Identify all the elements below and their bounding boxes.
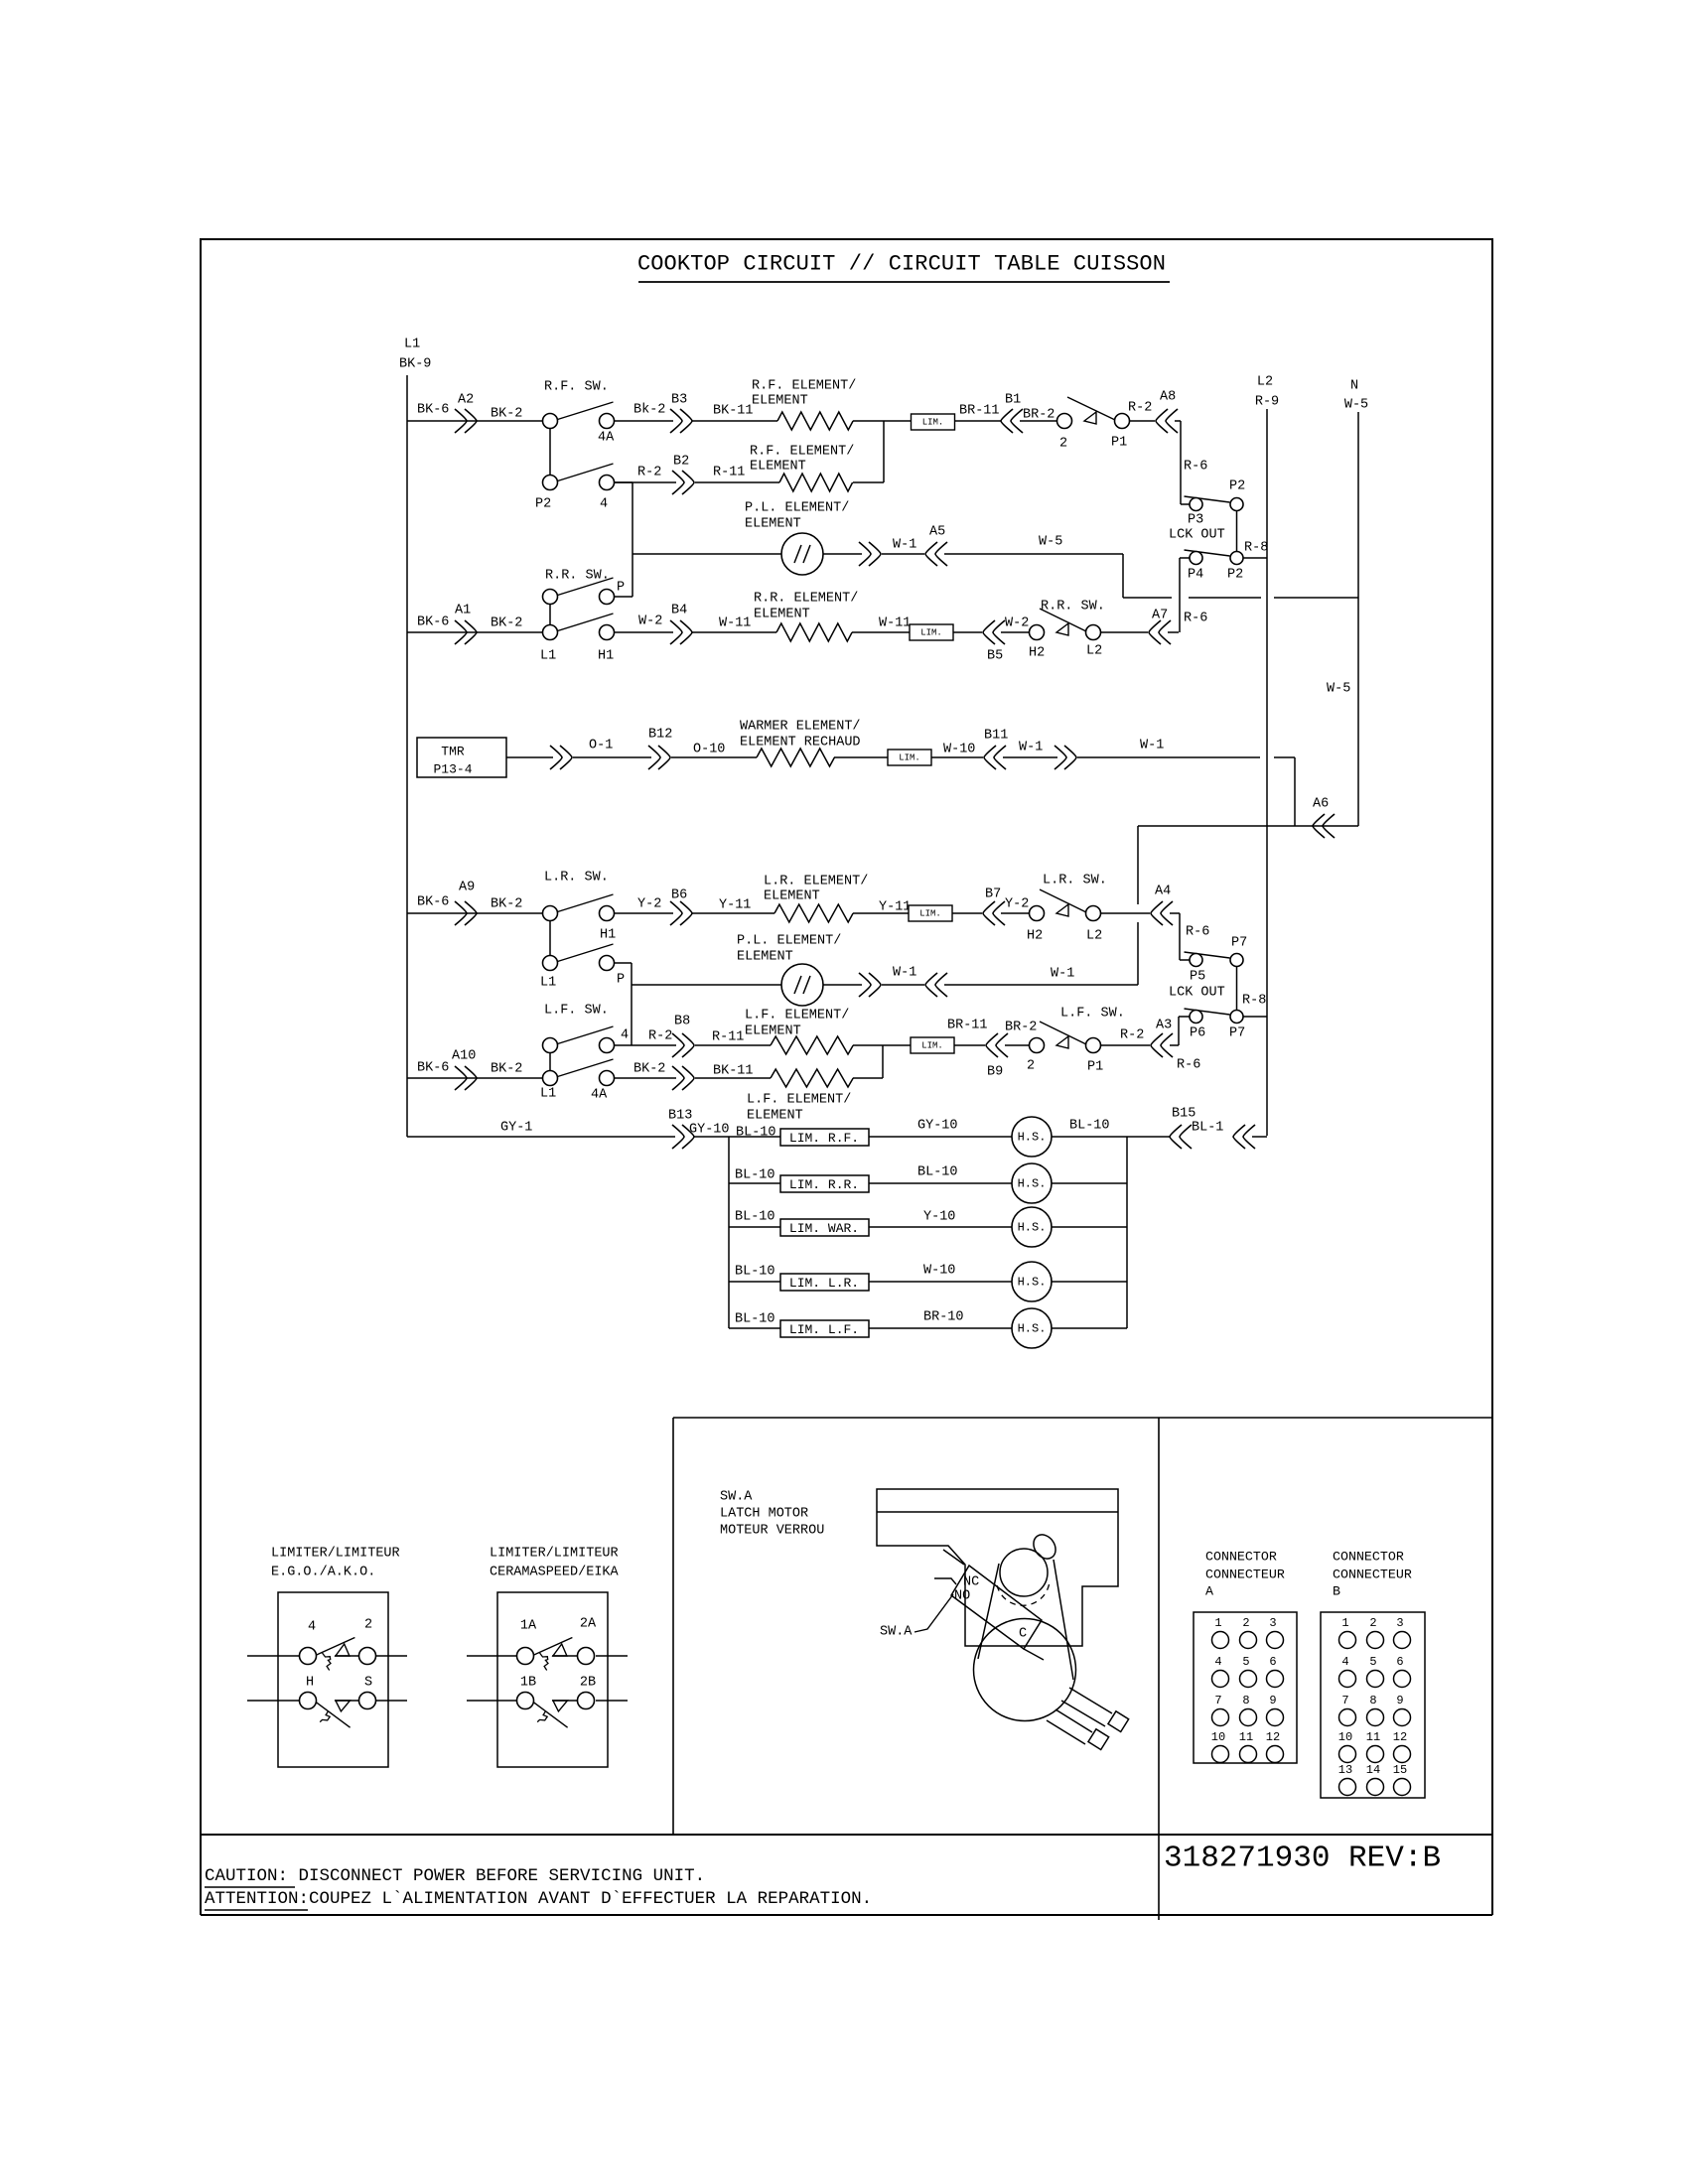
svg-text:A5: A5: [929, 525, 945, 540]
svg-text:A7: A7: [1152, 609, 1168, 623]
svg-text:CONNECTEUR: CONNECTEUR: [1333, 1568, 1412, 1582]
svg-text:W-2: W-2: [1005, 616, 1029, 631]
svg-text:2: 2: [364, 1618, 372, 1633]
svg-text:BR-10: BR-10: [923, 1310, 964, 1325]
svg-text:A10: A10: [452, 1049, 476, 1064]
limiter LIM. (L.R.): [909, 905, 952, 921]
svg-text:H: H: [306, 1676, 314, 1691]
svg-text:B: B: [1333, 1584, 1340, 1599]
wire A4 down to lockout: [1179, 913, 1181, 960]
wire N bus: [1357, 412, 1359, 826]
svg-text:R-11: R-11: [712, 1030, 744, 1045]
svg-text:11: 11: [1366, 1730, 1380, 1744]
svg-text:BR-11: BR-11: [959, 404, 1000, 419]
svg-text:H.S.: H.S.: [1018, 1177, 1047, 1191]
wire pair link L.R.: [549, 920, 551, 956]
switch CERAMASPEED 1A-2A: [534, 1638, 573, 1656]
connector B7: [983, 901, 1005, 925]
resistor R.F. element (upper): [777, 412, 853, 430]
svg-text:1B: 1B: [520, 1676, 536, 1691]
connector (TMR out): [550, 746, 572, 769]
svg-text:NO: NO: [954, 1589, 970, 1604]
resistor L.F. element (upper): [771, 1036, 853, 1054]
svg-text:B15: B15: [1172, 1107, 1196, 1122]
svg-text:L.R. SW.: L.R. SW.: [544, 871, 609, 886]
pilot lamp P.L. element (top): [781, 533, 823, 575]
switch LCK OUT P6-P7: [1185, 1009, 1230, 1015]
svg-text:R.F. ELEMENT/: R.F. ELEMENT/: [750, 445, 854, 460]
svg-text:W-1: W-1: [1019, 741, 1043, 755]
motor hidden edge dashed: [997, 1581, 1050, 1605]
svg-text:13: 13: [1338, 1763, 1352, 1777]
connector A3: [1151, 1033, 1173, 1057]
svg-text:P1: P1: [1087, 1060, 1103, 1075]
svg-text:H2: H2: [1027, 929, 1043, 944]
switch CERAMASPEED 1B-2B: [533, 1702, 568, 1727]
svg-text:CAUTION: DISCONNECT POWER BEFO: CAUTION: DISCONNECT POWER BEFORE SERVICI…: [205, 1866, 705, 1886]
connector A10: [455, 1066, 477, 1090]
wire pair link R.F.: [549, 428, 551, 476]
svg-text:BK-2: BK-2: [491, 897, 522, 912]
svg-text:ELEMENT: ELEMENT: [745, 517, 801, 532]
divider connector box: [1158, 1418, 1160, 1920]
svg-text:LIM.: LIM.: [920, 628, 942, 638]
heat switch H.S. 4: [1012, 1262, 1052, 1301]
svg-text:P3: P3: [1188, 513, 1203, 528]
connector B9: [986, 1033, 1008, 1057]
svg-text:ELEMENT: ELEMENT: [750, 460, 806, 475]
svg-text:P.L. ELEMENT/: P.L. ELEMENT/: [745, 501, 849, 516]
wire A6 column to W-1: [1137, 826, 1139, 904]
wire warmer row: [506, 756, 553, 758]
connector B15 second: [1233, 1125, 1255, 1149]
heat switch H.S. 2: [1012, 1163, 1052, 1203]
switch LCK OUT P3-P2: [1185, 496, 1230, 502]
svg-text:ATTENTION:COUPEZ L`ALIMENTATIO: ATTENTION:COUPEZ L`ALIMENTATION AVANT D`…: [205, 1889, 872, 1909]
svg-text:6: 6: [1269, 1655, 1276, 1669]
wire R-8 to L2 bus: [1243, 557, 1267, 559]
svg-text:BK-11: BK-11: [713, 404, 754, 419]
wire E.G.O. top row: [247, 1655, 299, 1657]
wire pair link R.R.: [549, 604, 551, 625]
svg-text:P7: P7: [1231, 936, 1247, 951]
svg-text:Y-11: Y-11: [879, 900, 911, 915]
svg-text:3: 3: [1396, 1616, 1403, 1630]
svg-text:A1: A1: [455, 604, 471, 618]
svg-text:ELEMENT: ELEMENT: [754, 608, 810, 622]
svg-text:LCK OUT: LCK OUT: [1169, 528, 1225, 543]
wire P4 to A7: [1180, 557, 1190, 559]
wire R.R. row: [407, 631, 543, 633]
switch L.F. SW. lower contacts L1-4A: [558, 1059, 614, 1077]
svg-text:R.F. SW.: R.F. SW.: [544, 380, 609, 395]
svg-text:W-1: W-1: [893, 966, 916, 981]
svg-text:B9: B9: [987, 1065, 1003, 1080]
svg-text:S: S: [364, 1676, 372, 1691]
limiter LIM. (L.F.): [911, 1037, 954, 1053]
wire E.G.O. bottom row: [247, 1700, 299, 1702]
switch SW.A body: [951, 1566, 1042, 1649]
svg-text:W-1: W-1: [1051, 967, 1074, 982]
wire P.L. row1 right: [823, 553, 862, 555]
divider latch box left: [672, 1418, 674, 1835]
wire P.L. row2 left: [632, 984, 781, 986]
connector B2: [672, 471, 694, 494]
wire A6 row: [1138, 825, 1358, 827]
svg-text:L2: L2: [1257, 375, 1273, 390]
limiter LIM. (warmer): [888, 750, 931, 765]
svg-text:NC: NC: [963, 1575, 979, 1590]
svg-text:H1: H1: [598, 649, 614, 664]
svg-text:BK-2: BK-2: [491, 616, 522, 631]
divider latch box top: [673, 1417, 1492, 1419]
switch R.R. limit contacts H2-L2: [1030, 625, 1045, 640]
svg-text:CONNECTOR: CONNECTOR: [1205, 1550, 1277, 1565]
wire P to column: [614, 596, 633, 598]
wire P2-P2 link: [1236, 511, 1238, 552]
wire SW.A C lead: [1024, 1649, 1044, 1660]
wire CERAMASPEED bottom row: [467, 1700, 517, 1702]
svg-text:BK-11: BK-11: [713, 1064, 754, 1079]
svg-text:P2: P2: [535, 497, 551, 512]
svg-text:4: 4: [1214, 1655, 1221, 1669]
svg-text:Bk-2: Bk-2: [633, 403, 665, 418]
svg-text:P13-4: P13-4: [433, 762, 472, 777]
svg-text:P: P: [617, 581, 625, 596]
svg-text:14: 14: [1366, 1763, 1380, 1777]
svg-text:R-2: R-2: [648, 1029, 672, 1044]
connector A8: [1156, 409, 1178, 433]
svg-text:4: 4: [600, 497, 608, 512]
motor body circle: [974, 1619, 1076, 1721]
svg-text:1A: 1A: [520, 1619, 537, 1634]
connector A9: [455, 901, 477, 925]
svg-text:LIM. L.F.: LIM. L.F.: [789, 1322, 859, 1337]
connector (L.F.2): [672, 1066, 694, 1090]
svg-text:W-2: W-2: [638, 614, 662, 629]
wire L.F. row2: [407, 1077, 542, 1079]
svg-text:10: 10: [1338, 1730, 1352, 1744]
svg-text:R-6: R-6: [1184, 460, 1207, 475]
wire P column L.R.: [615, 962, 632, 964]
svg-text:R.R. SW.: R.R. SW.: [545, 569, 610, 584]
svg-text:B5: B5: [987, 649, 1003, 664]
svg-text:BK-2: BK-2: [491, 407, 522, 422]
connector B15: [1170, 1125, 1192, 1149]
connector A6: [1313, 814, 1335, 838]
connector B3: [670, 409, 692, 433]
svg-text:B4: B4: [671, 604, 687, 618]
svg-text:4: 4: [1341, 1655, 1348, 1669]
svg-text:7: 7: [1341, 1694, 1348, 1707]
connector B13: [672, 1125, 694, 1149]
switch L.F. limit contacts 2-P1: [1030, 1038, 1045, 1053]
wire P7-P7 link: [1236, 967, 1238, 1011]
svg-text:LIM. WAR.: LIM. WAR.: [789, 1221, 859, 1236]
svg-text:R.R. ELEMENT/: R.R. ELEMENT/: [754, 592, 858, 607]
connector B12: [648, 746, 670, 769]
switch E.G.O. H-S: [316, 1702, 351, 1727]
svg-text:1: 1: [1341, 1616, 1348, 1630]
svg-text:BL-1: BL-1: [1192, 1121, 1223, 1136]
svg-text:3: 3: [1269, 1616, 1276, 1630]
svg-text:B8: B8: [674, 1015, 690, 1029]
svg-text:12: 12: [1266, 1730, 1280, 1744]
svg-text:BK-6: BK-6: [417, 895, 449, 910]
wire warmer W-1 down to A6 row: [1294, 757, 1296, 826]
svg-text:P: P: [617, 973, 625, 988]
svg-text:ELEMENT: ELEMENT: [764, 889, 820, 904]
limiter LIM. R.F. box: [780, 1129, 869, 1146]
wire P.L. row1 left: [633, 553, 781, 555]
limiter LIM. WAR. box: [780, 1219, 869, 1236]
svg-text:B12: B12: [648, 728, 672, 743]
switch R.F. SW. upper contacts: [558, 402, 614, 420]
motor terminal lug 1: [1108, 1711, 1129, 1732]
limiter LIM. L.F. box: [780, 1320, 869, 1337]
svg-text:P5: P5: [1190, 970, 1205, 985]
svg-text:WARMER ELEMENT/: WARMER ELEMENT/: [740, 720, 861, 735]
svg-text:W-10: W-10: [923, 1264, 955, 1279]
svg-text:R.F. ELEMENT/: R.F. ELEMENT/: [752, 379, 856, 394]
svg-text:L2: L2: [1086, 644, 1102, 659]
svg-text:LCK OUT: LCK OUT: [1169, 986, 1225, 1001]
svg-text:P1: P1: [1111, 436, 1127, 451]
svg-text:B11: B11: [984, 729, 1008, 744]
connector B1: [1001, 409, 1023, 433]
svg-text:LIM. L.R.: LIM. L.R.: [789, 1276, 859, 1291]
svg-text:CONNECTEUR: CONNECTEUR: [1205, 1568, 1285, 1582]
svg-text:BK-9: BK-9: [399, 357, 431, 372]
svg-text:L2: L2: [1086, 929, 1102, 944]
svg-text:P4: P4: [1188, 568, 1203, 583]
svg-text:W-1: W-1: [1140, 739, 1164, 753]
wire R-8 to L2 bus 2: [1243, 1016, 1267, 1018]
resistor R.F. element (lower): [779, 474, 853, 491]
connector B11: [984, 746, 1006, 769]
svg-text:B6: B6: [671, 888, 687, 903]
svg-text:H2: H2: [1029, 646, 1045, 661]
svg-text:P6: P6: [1190, 1026, 1205, 1041]
svg-text:L.R. ELEMENT/: L.R. ELEMENT/: [764, 875, 868, 889]
svg-text:R-6: R-6: [1184, 612, 1207, 626]
wire SW.A NO lead: [934, 1578, 956, 1584]
svg-text:H.S.: H.S.: [1018, 1221, 1047, 1235]
connector B5: [983, 620, 1005, 644]
svg-text:2: 2: [1242, 1616, 1249, 1630]
svg-text:L1: L1: [540, 976, 556, 991]
svg-text:R-2: R-2: [1120, 1028, 1144, 1043]
wire L.F. row1: [615, 1044, 676, 1046]
svg-text:BL-10: BL-10: [735, 1312, 775, 1327]
switch R.R. SW. lower contacts L1-H1: [558, 614, 614, 631]
svg-text:E.G.O./A.K.O.: E.G.O./A.K.O.: [271, 1566, 375, 1580]
wire GY-1 row: [407, 1136, 675, 1138]
svg-text:LIMITER/LIMITEUR: LIMITER/LIMITEUR: [490, 1547, 619, 1562]
svg-text:ELEMENT: ELEMENT: [737, 950, 793, 965]
svg-text:LIM. R.R.: LIM. R.R.: [789, 1177, 859, 1192]
svg-text:LIM.: LIM.: [921, 1041, 943, 1051]
wire R.F. row2: [615, 481, 676, 483]
switch LCK OUT P4-P2: [1185, 550, 1230, 556]
svg-text:ELEMENT: ELEMENT: [752, 394, 808, 409]
switch L.F. SW. upper contacts 4: [558, 1026, 614, 1044]
svg-text:P2: P2: [1229, 479, 1245, 494]
heat switch H.S. 5: [1012, 1308, 1052, 1348]
motor armature circle: [1000, 1549, 1048, 1596]
svg-text:TMR: TMR: [441, 745, 465, 759]
svg-text:ELEMENT: ELEMENT: [745, 1024, 801, 1039]
svg-text:9: 9: [1396, 1694, 1403, 1707]
connector A1: [455, 620, 477, 644]
svg-text:A: A: [1205, 1584, 1213, 1599]
latch bracket inner line: [877, 1511, 1118, 1513]
svg-text:W-1: W-1: [893, 538, 916, 553]
svg-text:4A: 4A: [591, 1088, 608, 1103]
svg-text:CERAMASPEED/EIKA: CERAMASPEED/EIKA: [490, 1566, 620, 1580]
connector B6: [670, 901, 692, 925]
svg-text:B2: B2: [673, 455, 689, 470]
svg-text:H.S.: H.S.: [1018, 1322, 1047, 1336]
svg-text:GY-1: GY-1: [500, 1121, 532, 1136]
svg-text:2: 2: [1369, 1616, 1376, 1630]
svg-text:5: 5: [1369, 1655, 1376, 1669]
svg-text:BK-2: BK-2: [633, 1062, 665, 1077]
svg-text:L1: L1: [540, 1087, 556, 1102]
switch R.F. limit contacts 2-P1: [1057, 414, 1072, 429]
limiter E.G.O. box: [278, 1592, 388, 1767]
svg-text:P7: P7: [1229, 1026, 1245, 1041]
svg-text:R-6: R-6: [1186, 925, 1209, 940]
svg-text:L1: L1: [540, 649, 556, 664]
svg-text:GY-10: GY-10: [689, 1123, 730, 1138]
svg-text:BL-10: BL-10: [735, 1210, 775, 1225]
svg-text:R.R. SW.: R.R. SW.: [1041, 600, 1105, 614]
svg-text:2A: 2A: [580, 1617, 597, 1632]
svg-text:P2: P2: [1227, 568, 1243, 583]
svg-text:7: 7: [1214, 1694, 1221, 1707]
svg-text:GY-10: GY-10: [917, 1119, 958, 1134]
svg-text:2B: 2B: [580, 1676, 596, 1691]
connector A4: [1151, 901, 1173, 925]
svg-text:4: 4: [621, 1028, 629, 1043]
svg-text:6: 6: [1396, 1655, 1403, 1669]
limiter LIM. L.R. box: [780, 1274, 869, 1291]
svg-text:W-5: W-5: [1039, 535, 1062, 550]
limiter LIM. (R.R.): [910, 624, 953, 640]
svg-text:L1: L1: [404, 338, 420, 352]
svg-text:2: 2: [1059, 437, 1067, 452]
wire R.F. row1: [407, 420, 542, 422]
wire limiter feed column: [728, 1137, 730, 1328]
connector B box: [1321, 1612, 1425, 1798]
svg-text:BK-6: BK-6: [417, 615, 449, 630]
svg-text:A9: A9: [459, 881, 475, 895]
svg-text:BR-2: BR-2: [1023, 408, 1055, 423]
wire P6 to A3: [1179, 1016, 1190, 1018]
connector A7: [1149, 620, 1171, 644]
resistor R.R. element: [776, 623, 852, 641]
wire bottom band top line: [201, 1834, 1492, 1836]
svg-text:BR-2: BR-2: [1005, 1021, 1037, 1035]
switch L.R. limit contacts H2-L2: [1030, 906, 1045, 921]
connector A5: [925, 542, 947, 566]
svg-text:9: 9: [1269, 1694, 1276, 1707]
svg-text:BL-10: BL-10: [1069, 1119, 1110, 1134]
motor terminal leg 1: [1069, 1688, 1112, 1713]
wire W-5 to N bus: [1122, 554, 1124, 598]
svg-text:8: 8: [1242, 1694, 1249, 1707]
svg-text:Y-10: Y-10: [923, 1210, 955, 1225]
svg-text:CONNECTOR: CONNECTOR: [1333, 1550, 1404, 1565]
svg-text:318271930 REV:B: 318271930 REV:B: [1164, 1842, 1441, 1876]
wire pair link L.F.: [549, 1052, 551, 1071]
svg-text:H.S.: H.S.: [1018, 1131, 1047, 1145]
heat switch H.S. 3: [1012, 1207, 1052, 1247]
svg-text:10: 10: [1211, 1730, 1225, 1744]
svg-text:12: 12: [1393, 1730, 1407, 1744]
svg-text:LIMITER/LIMITEUR: LIMITER/LIMITEUR: [271, 1547, 400, 1562]
connector B4: [670, 620, 692, 644]
svg-text:Y-2: Y-2: [637, 897, 661, 912]
svg-text:B13: B13: [668, 1109, 692, 1124]
svg-text:R-2: R-2: [1128, 401, 1152, 416]
wire L.R. row: [407, 912, 542, 914]
wire junction to L.F. row2: [882, 1045, 884, 1078]
outer border frame: [201, 239, 1492, 1835]
resistor L.F. element (lower): [771, 1069, 853, 1087]
switch E.G.O. 4-2: [317, 1638, 355, 1656]
svg-text:W-10: W-10: [943, 743, 975, 757]
timer TMR P13-4: [417, 738, 506, 777]
svg-text:A4: A4: [1155, 885, 1171, 899]
motor terminal leg 2: [1055, 1709, 1092, 1732]
svg-text:A3: A3: [1156, 1019, 1172, 1033]
latch bracket outline: [877, 1489, 1118, 1646]
svg-text:R-6: R-6: [1177, 1058, 1200, 1073]
svg-text:W-5: W-5: [1344, 398, 1368, 413]
connector (P.L.2 in): [925, 973, 947, 997]
wire junction to row2: [883, 421, 885, 482]
svg-text:A6: A6: [1313, 797, 1329, 812]
svg-text:L.F. ELEMENT/: L.F. ELEMENT/: [745, 1009, 849, 1024]
svg-text:BL-10: BL-10: [917, 1165, 958, 1180]
svg-text:W-11: W-11: [879, 616, 911, 631]
connector (warmer out): [1055, 746, 1076, 769]
svg-text:O-10: O-10: [693, 743, 725, 757]
svg-text:N: N: [1350, 379, 1358, 394]
svg-text:W-11: W-11: [719, 616, 751, 631]
svg-text:B1: B1: [1005, 393, 1021, 408]
switch L.R. SW. lower contacts L1-P: [558, 944, 614, 962]
wire 4-circuit column: [615, 481, 633, 483]
svg-text:R-11: R-11: [713, 466, 745, 480]
svg-text:LATCH MOTOR: LATCH MOTOR: [720, 1507, 808, 1522]
svg-text:BL-10: BL-10: [736, 1126, 776, 1141]
wire L2 bus: [1266, 409, 1268, 1136]
wire A8 down to lockout: [1180, 421, 1182, 504]
svg-text:BK-2: BK-2: [491, 1062, 522, 1077]
svg-text:R-8: R-8: [1242, 994, 1266, 1009]
svg-text:Y-2: Y-2: [1005, 897, 1029, 912]
svg-text:SW.A: SW.A: [720, 1490, 753, 1505]
motor cone left: [978, 1564, 999, 1659]
limiter LIM. (R.F.): [912, 414, 955, 430]
svg-text:R-9: R-9: [1255, 395, 1279, 410]
wire P.L. row2 right: [823, 984, 862, 986]
heat switch H.S. 1: [1012, 1117, 1052, 1157]
wire B15 to L2 bus: [1252, 1136, 1267, 1138]
